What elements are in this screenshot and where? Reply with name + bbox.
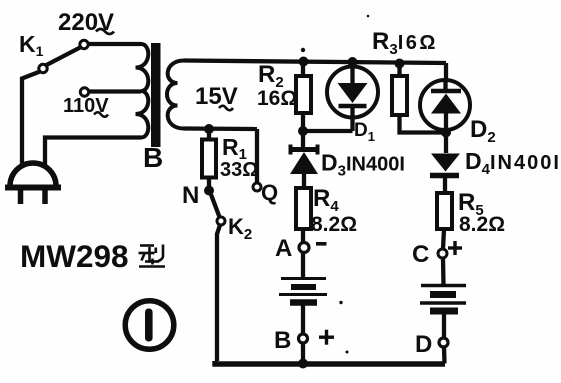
wire R4 bottom stub [301, 229, 305, 243]
wire primary bottom to plug [45, 138, 141, 167]
svg-text:16Ω: 16Ω [257, 87, 297, 110]
wire R1 bottom stub [207, 177, 211, 190]
wire secondary top rail [184, 61, 446, 64]
svg-text:C: C [412, 241, 429, 268]
node junction D2 bottom / R3 / D4 [441, 128, 451, 138]
wire R2 bottom stub [301, 113, 305, 131]
wire R2 top stub [301, 61, 305, 76]
svg-text:B: B [274, 327, 291, 354]
node Q [253, 183, 261, 191]
wire secondary bottom to Q corner [184, 126, 257, 131]
wire K1 pole down to plug [22, 72, 40, 167]
svg-text:Q: Q [261, 180, 278, 205]
label R4 8.2ohm [311, 185, 357, 236]
node C [438, 249, 447, 258]
node junction secondary bottom / R1 [204, 124, 214, 134]
wire B node to bottom rail [301, 343, 305, 363]
label MW298 model [20, 238, 165, 274]
node junction bottom rail / B [298, 359, 308, 369]
label R2 16ohm [257, 61, 297, 110]
wire A to battery [301, 252, 305, 279]
label R5 8.2ohm [458, 189, 505, 236]
node N [204, 186, 214, 196]
wire R1 top stub [207, 129, 211, 141]
svg-text:8.2Ω: 8.2Ω [459, 213, 505, 236]
node D [439, 338, 448, 347]
label 15V [195, 83, 238, 110]
wire R3 top stub [397, 63, 401, 76]
wire R5 bottom stub [443, 229, 444, 249]
node junction D1 top [348, 57, 358, 67]
resistor R3 [392, 76, 407, 115]
resistor R5 [437, 193, 452, 229]
wire 110V contact to primary tap [89, 89, 141, 93]
wire R3 bottom to D2 bottom [400, 115, 447, 133]
wire C to battery [441, 258, 446, 285]
svg-text:D4IN400I: D4IN400I [465, 148, 561, 178]
wire top rail corner to D2 [444, 63, 448, 81]
label C plus [412, 241, 462, 268]
svg-text:A: A [275, 235, 292, 262]
battery GB2 [420, 286, 466, 312]
svg-text:15V: 15V [195, 83, 238, 110]
svg-text:N: N [182, 182, 199, 209]
transformer core [151, 43, 161, 147]
svg-text:8.2Ω: 8.2Ω [311, 213, 357, 236]
switch K1 [39, 40, 89, 96]
label 220V [58, 9, 114, 36]
plug P [5, 163, 61, 204]
diode D3 [290, 131, 318, 188]
LED D2 [420, 80, 470, 134]
resistor R1 [202, 140, 216, 178]
node junction R2 top [299, 15, 370, 67]
wire D node to bottom rail [442, 347, 447, 364]
label R1 33ohm [220, 134, 258, 181]
wire D1 bottom to R2 column [303, 129, 353, 133]
label 110V [63, 95, 109, 117]
svg-text:MW298: MW298 [20, 238, 129, 274]
svg-text:110V: 110V [63, 95, 109, 117]
wire K2 down to bottom rail [217, 225, 220, 361]
switch K2 [211, 195, 225, 226]
node A [299, 243, 309, 253]
LED D1 [327, 63, 378, 131]
label A minus [275, 235, 327, 262]
wire Q branch down [255, 129, 259, 183]
node B [299, 301, 349, 354]
svg-text:D: D [415, 331, 432, 358]
node junction D1 top rail dot [395, 59, 405, 69]
node junction R2 bottom / D1 / D3 [298, 126, 308, 136]
svg-text:D3IN400I: D3IN400I [321, 150, 405, 180]
diode D4 [430, 132, 460, 193]
battery GB1 [279, 279, 327, 303]
wire battery to D node [442, 314, 446, 338]
figure number 1 circled [125, 301, 174, 350]
transformer primary winding [136, 44, 149, 138]
wire battery to B node [301, 305, 305, 334]
wire 220V contact to primary top [89, 42, 142, 46]
resistor R2 [296, 76, 311, 113]
svg-text:B: B [143, 142, 163, 173]
label B plus [274, 327, 334, 354]
svg-text:33Ω: 33Ω [220, 159, 258, 181]
svg-text:R3I6Ω: R3I6Ω [372, 28, 438, 58]
transformer secondary winding [167, 61, 184, 129]
wire bottom rail [215, 361, 445, 364]
resistor R4 [296, 188, 311, 229]
